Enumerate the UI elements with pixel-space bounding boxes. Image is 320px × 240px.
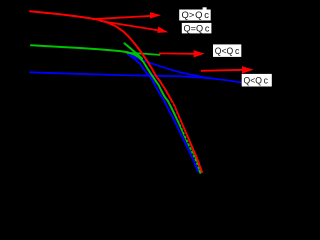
white notch above label box 1 [203, 7, 207, 10]
label box upper Q<Qc [213, 44, 241, 57]
red arrow 1 shaft (to Q>Qc label) [92, 16, 153, 19]
red arrow 2 head [157, 27, 168, 33]
svg-text:Q=Q c: Q=Q c [184, 24, 210, 35]
svg-text:Q> Q c: Q> Q c [182, 10, 210, 21]
green diagonal segment above knee [125, 43, 143, 58]
red arrow 3 shaft (to upper Q<Qc label) [159, 52, 196, 54]
green curve Q=Qc: gentle decline then dive (middle strand of band) [31, 45, 200, 173]
blue shallow branch (-20dB/dec segment of second Q<Qc curve) [128, 55, 213, 79]
red curve Q>Qc: gentle decline then dive (rightmost strand of band) [30, 11, 202, 172]
red arrow 4 head [242, 66, 254, 73]
label box lower Q<Qc [242, 74, 272, 87]
label box Q>Qc [179, 10, 211, 21]
red arrow 3 head [194, 50, 205, 57]
label box Q=Qc [182, 23, 212, 34]
blue flat curve (overdamped Q<Qc, lower) [30, 72, 242, 82]
black dashed asymptote dots over red band line [172, 103, 200, 170]
red arrow 4 shaft (to lower Q<Qc label) [201, 70, 245, 71]
red arrow 1 head [150, 12, 161, 18]
svg-text:Q<Q c: Q<Q c [215, 46, 240, 57]
svg-text:Q<Q c: Q<Q c [244, 76, 269, 87]
red arrow 2 shaft (to Q=Qc label) [100, 21, 160, 31]
blue steep curve diving to asymptote (leftmost strand of band) [128, 54, 198, 171]
green horizontal segment under knee (asymptote stub) [127, 53, 160, 55]
